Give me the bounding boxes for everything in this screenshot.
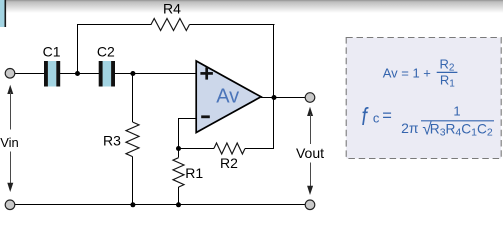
svg-text:2π: 2π	[401, 120, 419, 136]
svg-text:R1: R1	[185, 165, 203, 181]
wire: R2 right lead	[245, 148, 274, 150]
capacitor C2	[103, 61, 112, 87]
svg-text:Av = 1 +: Av = 1 +	[383, 65, 431, 80]
svg-text:C2: C2	[97, 44, 115, 60]
resistor R3	[126, 122, 139, 157]
Vin measurement arrow down	[10, 152, 12, 186]
svg-text:R3R4C1C2: R3R4C1C2	[430, 121, 493, 138]
wire: bottom rail	[14, 204, 306, 206]
top gradient strip	[0, 0, 503, 13]
svg-text:R3: R3	[103, 132, 121, 148]
wire: right vertical from top rail to R2 row	[273, 24, 275, 149]
capacitor C1	[48, 61, 56, 87]
wire: op-amp output	[261, 97, 305, 99]
Vout measurement arrow down	[310, 163, 312, 189]
terminal: output bottom	[305, 200, 315, 210]
clipped capacitor fragment at left edge	[0, 0, 5, 27]
node: output junction	[272, 95, 277, 100]
wire: R3 upper lead	[132, 74, 134, 123]
node: bottom rail R3 junction	[130, 202, 135, 207]
svg-text:Vout: Vout	[296, 145, 324, 161]
node: junction between C1 and C2	[75, 71, 80, 76]
wire: inverting input horizontal	[178, 118, 197, 120]
resistor R1	[173, 158, 184, 187]
resistor R4	[151, 19, 190, 31]
op-amp plus marker	[200, 72, 213, 75]
svg-text:R4: R4	[163, 0, 181, 16]
svg-text:Av: Av	[216, 85, 239, 107]
fraction bar	[421, 120, 494, 122]
svg-text:1: 1	[453, 104, 460, 119]
wire: top rail left segment	[77, 24, 152, 26]
node: junction after C2 (R3 tap)	[130, 71, 135, 76]
op-amp U1 triangle	[196, 61, 261, 133]
wire: C1 to C2	[60, 73, 99, 75]
wire: R2 left lead	[179, 148, 215, 150]
wire: R1 upper lead	[178, 149, 180, 158]
terminal: input bottom	[5, 200, 15, 210]
Vin measurement arrow up	[7, 85, 13, 94]
svg-text:R2: R2	[220, 155, 238, 171]
formula box	[346, 38, 501, 159]
terminal: output top	[305, 93, 315, 103]
wire: top rail right segment	[190, 24, 275, 26]
node: R1/R2 junction	[176, 146, 181, 151]
Vout measurement arrow up	[307, 107, 313, 116]
svg-text:Vin: Vin	[0, 135, 19, 150]
op-amp minus marker	[201, 115, 210, 118]
terminal: input top	[5, 69, 15, 79]
fraction bar	[437, 71, 458, 73]
resistor R2	[214, 143, 245, 154]
svg-text:=: =	[382, 107, 392, 125]
node: bottom rail R1 junction	[176, 202, 181, 207]
wire: R3 lower lead to bottom rail	[132, 157, 134, 205]
svg-text:C1: C1	[43, 44, 61, 60]
svg-text:c: c	[373, 111, 380, 126]
wire: C2 to op-amp non-inverting input	[115, 73, 198, 75]
wire: junction A up to top rail	[77, 24, 79, 74]
wire: input terminal to C1	[14, 73, 45, 75]
wire: R1 lower lead to bottom rail	[178, 187, 180, 205]
wire: inverting input vertical down to R1/R2 node	[178, 118, 180, 149]
